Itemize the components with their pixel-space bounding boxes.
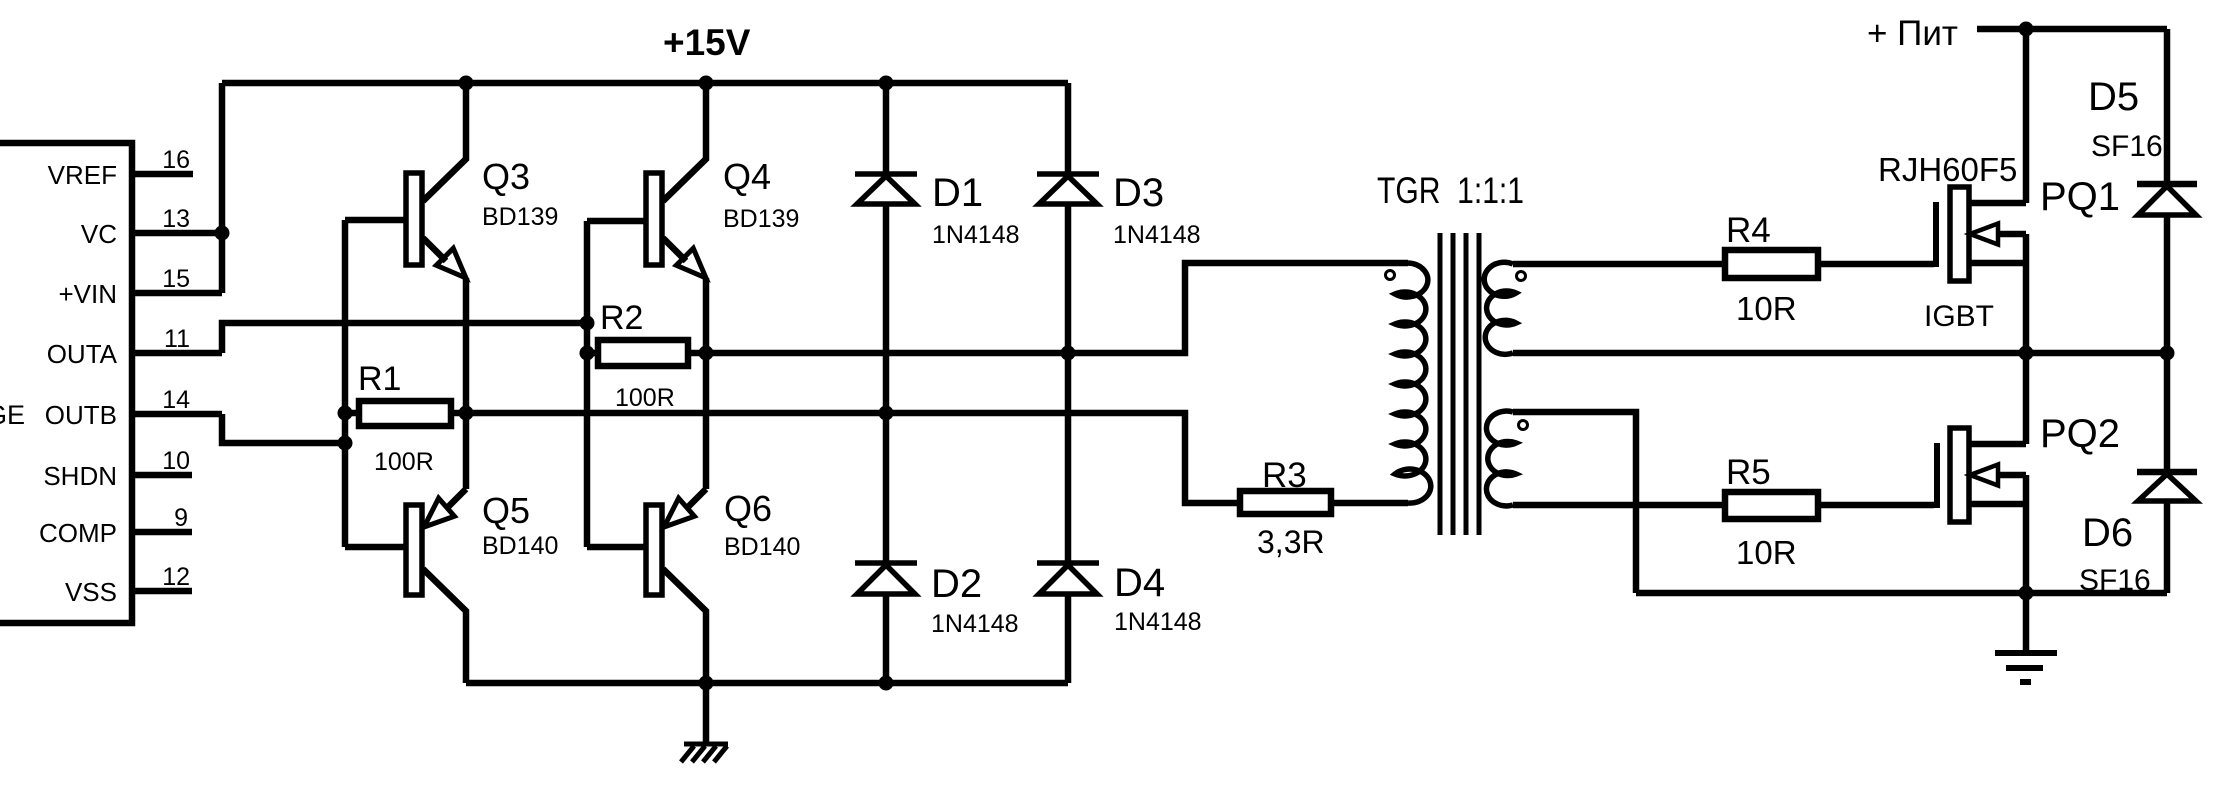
node rail/Q4 bbox=[699, 76, 714, 91]
transformer TGR secondary 2 winding bbox=[1486, 411, 1516, 506]
wire Q6 collector down to ground line bbox=[663, 569, 706, 683]
svg-text:3,3R: 3,3R bbox=[1257, 524, 1325, 560]
svg-text:D4: D4 bbox=[1114, 561, 1165, 605]
node rail/D1 bbox=[879, 76, 894, 91]
svg-text:GE: GE bbox=[0, 400, 25, 430]
svg-text:13: 13 bbox=[162, 205, 190, 233]
svg-text:100R: 100R bbox=[615, 384, 675, 412]
node emitter line / D5 bbox=[2160, 346, 2175, 361]
svg-text:R2: R2 bbox=[600, 299, 643, 337]
wire VC/+VIN vertical to +15V rail bbox=[219, 83, 226, 293]
svg-text:12: 12 bbox=[162, 563, 190, 591]
IGBT PQ2 body bar bbox=[1950, 428, 1969, 522]
wire bottom return line to D6 bbox=[1636, 590, 2167, 597]
wire secondary1 bottom lead / emitter line bbox=[1513, 350, 2167, 357]
svg-text:VC: VC bbox=[81, 219, 117, 249]
pin 12 VSS stub bbox=[132, 588, 192, 595]
IGBT PQ2 collector lead bbox=[1969, 353, 2026, 444]
svg-text:SF16: SF16 bbox=[2079, 564, 2151, 597]
transistor Q4 base bar bbox=[646, 173, 662, 265]
svg-text:TGR 1:1:1: TGR 1:1:1 bbox=[1377, 170, 1524, 211]
transistor Q6 emitter arrow bbox=[664, 498, 694, 527]
svg-text:SF16: SF16 bbox=[2091, 130, 2163, 163]
wire R4 to PQ1 gate bbox=[1818, 261, 1934, 268]
IGBT PQ1 gate bar bbox=[1933, 202, 1939, 267]
diode D2 bbox=[855, 560, 917, 566]
pin 15 +VIN stub bbox=[132, 290, 222, 297]
wire D1/D2 branch vertical bbox=[883, 83, 890, 683]
svg-text:BD140: BD140 bbox=[482, 532, 558, 560]
resistor R1 body bbox=[359, 401, 451, 426]
IGBT PQ1 arrow bbox=[1970, 224, 1998, 245]
wire secondary2 bottom lead to R5 bbox=[1513, 502, 1725, 509]
svg-text:COMP: COMP bbox=[39, 518, 117, 548]
svg-text:10: 10 bbox=[162, 447, 190, 475]
svg-text:BD139: BD139 bbox=[723, 205, 799, 233]
wire secondary2 top lead and down bbox=[1513, 412, 1636, 593]
node D1 anode bbox=[879, 406, 894, 421]
IC U1 body (partially cut at left edge) bbox=[0, 143, 132, 623]
node D3 anode bbox=[1061, 346, 1076, 361]
wire OUTB step down and across to R1 node bbox=[222, 414, 345, 443]
node +supply / PQ1 collector bbox=[2019, 22, 2034, 37]
wire Q6 base lead bbox=[587, 544, 646, 551]
wire Q4 collector to rail bbox=[663, 83, 706, 201]
IGBT PQ2 arrow/emitter leads bbox=[1969, 475, 2026, 593]
transformer TGR primary phase dot bbox=[1386, 271, 1395, 280]
wire R5 to PQ2 gate bbox=[1818, 502, 1934, 509]
svg-text:OUTA: OUTA bbox=[47, 339, 118, 369]
+15V rail bbox=[222, 80, 1068, 87]
wire OUTA node line y=413 to transformer bbox=[466, 413, 1240, 503]
wire Q3 collector to rail bbox=[423, 83, 466, 201]
svg-text:Q5: Q5 bbox=[482, 490, 530, 531]
diode D4 bbox=[1037, 560, 1099, 566]
IGBT PQ2 arrow bbox=[1970, 465, 1998, 486]
wire base bus Q4/Q6 vertical bbox=[584, 221, 591, 547]
node ground line / Q6 bbox=[699, 676, 714, 691]
svg-text:10R: 10R bbox=[1736, 534, 1797, 571]
wire R3 right lead to primary bbox=[1331, 500, 1408, 507]
wire Q4 base lead bbox=[587, 218, 646, 225]
pin 16 VREF stub bbox=[132, 171, 193, 178]
svg-text:D5: D5 bbox=[2088, 75, 2139, 119]
transformer TGR primary winding bbox=[1395, 263, 1431, 503]
svg-text:RJH60F5: RJH60F5 bbox=[1878, 151, 2017, 188]
svg-text:D6: D6 bbox=[2082, 511, 2133, 555]
svg-text:11: 11 bbox=[164, 325, 190, 353]
transistor Q4 emitter arrow bbox=[676, 248, 706, 278]
svg-text:PQ1: PQ1 bbox=[2040, 175, 2120, 219]
svg-text:+ Пит: + Пит bbox=[1867, 14, 1958, 53]
transformer TGR core bbox=[1440, 233, 1479, 535]
node R2 left bbox=[580, 346, 595, 361]
svg-text:D2: D2 bbox=[931, 562, 982, 606]
node OUTA/base bus bbox=[580, 316, 595, 331]
wire +supply line bbox=[1977, 26, 2167, 33]
ground GND2 stem bbox=[2023, 593, 2030, 652]
resistor R5 body bbox=[1725, 492, 1818, 519]
resistor R3 body bbox=[1240, 491, 1331, 514]
svg-text:R5: R5 bbox=[1726, 453, 1771, 492]
wire Q5 collector down to ground line bbox=[423, 569, 466, 683]
svg-text:BD140: BD140 bbox=[724, 533, 800, 561]
wire R1 left lead bbox=[345, 410, 359, 417]
svg-text:16: 16 bbox=[162, 146, 190, 174]
svg-text:Q3: Q3 bbox=[482, 156, 530, 197]
node R1 left bbox=[338, 406, 353, 421]
svg-text:1N4148: 1N4148 bbox=[931, 610, 1019, 638]
wire base bus Q3/Q5 vertical bbox=[342, 220, 349, 547]
transistor Q5 base bar bbox=[406, 505, 422, 595]
diode D6 bbox=[2137, 353, 2197, 593]
diode D3 bbox=[1037, 171, 1099, 177]
wire Q5 base lead bbox=[345, 544, 406, 551]
ground GND1 hatched symbol bbox=[681, 744, 728, 762]
svg-text:100R: 100R bbox=[374, 448, 434, 476]
IGBT PQ2 gate bar bbox=[1934, 443, 1940, 508]
wire R2 left lead bbox=[587, 350, 598, 357]
IGBT PQ1 arrow/emitter leads bbox=[1969, 234, 2026, 353]
transformer TGR secondary 1 winding bbox=[1484, 262, 1516, 354]
transistor Q3 emitter arrow bbox=[436, 248, 466, 278]
wire R1 right lead bbox=[451, 410, 466, 417]
wire R2 right lead bbox=[688, 350, 706, 357]
svg-text:+VIN: +VIN bbox=[58, 279, 117, 309]
resistor R4 body bbox=[1725, 250, 1818, 278]
node rail/Q3 bbox=[459, 76, 474, 91]
svg-text:Q4: Q4 bbox=[723, 156, 771, 197]
wire OUTA step up and across to R2 node bbox=[222, 323, 587, 353]
svg-text:R4: R4 bbox=[1726, 211, 1771, 250]
transformer TGR secondary 2 phase dot bbox=[1519, 421, 1528, 430]
transistor Q3 base bar bbox=[406, 173, 422, 265]
node emitter line / PQ1 bbox=[2019, 346, 2034, 361]
svg-text:9: 9 bbox=[174, 504, 188, 532]
wire D3/D4 branch vertical bbox=[1065, 83, 1072, 683]
transistor Q5 emitter arrow bbox=[424, 498, 454, 527]
svg-text:15: 15 bbox=[162, 265, 190, 293]
svg-text:1N4148: 1N4148 bbox=[932, 221, 1020, 249]
svg-text:1N4148: 1N4148 bbox=[1113, 221, 1201, 249]
svg-text:1N4148: 1N4148 bbox=[1114, 608, 1202, 636]
diode D1 bbox=[855, 171, 917, 177]
svg-text:Q6: Q6 bbox=[724, 488, 772, 529]
svg-text:PQ2: PQ2 bbox=[2040, 412, 2120, 456]
svg-text:14: 14 bbox=[162, 386, 190, 414]
pin 13 VC stub bbox=[132, 230, 222, 237]
node OUTB/base bus bbox=[338, 436, 353, 451]
wire Q4 emitter down to R2 node and Q6 emitter bbox=[663, 238, 706, 509]
svg-text:D1: D1 bbox=[932, 171, 983, 215]
ground GND1 stem bbox=[703, 683, 710, 744]
svg-text:SHDN: SHDN bbox=[43, 461, 117, 491]
wire Q3 emitter down to R1 node and Q5 emitter bbox=[423, 238, 466, 509]
svg-text:10R: 10R bbox=[1736, 290, 1797, 327]
pin 9 COMP stub bbox=[132, 529, 192, 536]
svg-text:IGBT: IGBT bbox=[1924, 300, 1994, 333]
svg-text:BD139: BD139 bbox=[482, 203, 558, 231]
wire R2 output line y=353 to transformer bbox=[706, 263, 1408, 353]
svg-text:VSS: VSS bbox=[65, 577, 117, 607]
pin 11 OUTA stub bbox=[132, 350, 222, 357]
node R2 right / Q4 emitter bbox=[699, 346, 714, 361]
svg-text:R3: R3 bbox=[1262, 456, 1307, 495]
svg-text:OUTB: OUTB bbox=[45, 400, 117, 430]
wire secondary1 top lead to R4 bbox=[1513, 261, 1725, 268]
IGBT PQ1 body bar bbox=[1950, 187, 1969, 281]
wire bottom ground line bbox=[466, 680, 1068, 687]
svg-text:R1: R1 bbox=[358, 360, 401, 398]
IGBT PQ1 collector lead bbox=[1969, 29, 2026, 203]
ground GND2 symbol bbox=[1995, 653, 2057, 682]
node R1 right bbox=[459, 406, 474, 421]
svg-text:+15V: +15V bbox=[663, 22, 751, 63]
node PQ2 emitter / ground bbox=[2019, 586, 2034, 601]
svg-text:VREF: VREF bbox=[48, 160, 117, 190]
pin 14 OUTB stub bbox=[132, 411, 222, 418]
transistor Q6 base bar bbox=[646, 505, 662, 595]
transformer TGR secondary 1 phase dot bbox=[1517, 272, 1526, 281]
node VC junction bbox=[215, 226, 230, 241]
pin 10 SHDN stub bbox=[132, 472, 192, 479]
resistor R2 body bbox=[598, 340, 688, 366]
svg-text:D3: D3 bbox=[1113, 171, 1164, 215]
wire Q3 base lead bbox=[345, 217, 406, 224]
node ground line / D2 bbox=[879, 676, 894, 691]
diode D5 bbox=[2137, 29, 2197, 353]
